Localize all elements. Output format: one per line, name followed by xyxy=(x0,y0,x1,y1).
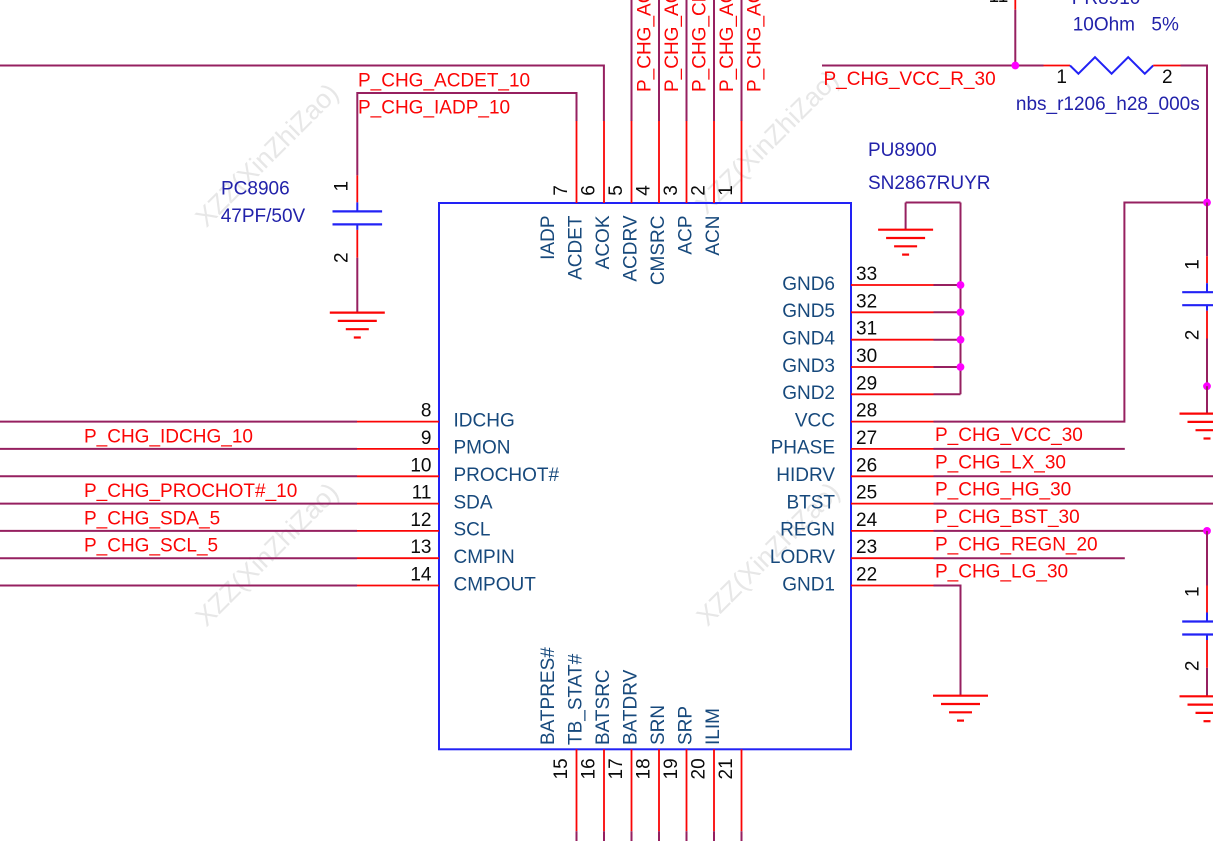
pin 10 PROCHOT# xyxy=(357,455,560,486)
wire GND row pin 33 xyxy=(934,284,961,286)
capacitor C right bottom xyxy=(1182,586,1213,668)
wire net P_CHG_ACOK_10 xyxy=(631,0,633,121)
svg-text:11: 11 xyxy=(989,0,1009,7)
pin 23 LODRV xyxy=(770,537,934,568)
wire net P_CHG_ACP_30 xyxy=(713,0,715,121)
pin 16 TB_STAT# xyxy=(565,653,604,831)
svg-text:16: 16 xyxy=(579,758,600,779)
svg-text:7: 7 xyxy=(551,185,572,196)
svg-text:P_CHG_ACDET_10: P_CHG_ACDET_10 xyxy=(358,70,530,91)
wire net at pin 8 xyxy=(0,421,357,423)
wire GND row pin 29 xyxy=(934,393,961,395)
svg-text:ACP: ACP xyxy=(675,216,696,255)
junction node right cap bottom xyxy=(1203,382,1211,390)
svg-text:P_CHG_CMSRC_30: P_CHG_CMSRC_30 xyxy=(690,0,711,92)
svg-text:LODRV: LODRV xyxy=(770,547,835,568)
wire net at pin 13 xyxy=(0,557,357,559)
svg-text:IADP: IADP xyxy=(538,216,559,260)
svg-text:29: 29 xyxy=(856,373,877,394)
svg-text:REGN: REGN xyxy=(780,520,835,541)
svg-text:BATPRES#: BATPRES# xyxy=(538,647,559,745)
pin 14 CMPOUT xyxy=(357,565,536,596)
svg-text:P_CHG_LX_30: P_CHG_LX_30 xyxy=(935,452,1066,473)
svg-text:15: 15 xyxy=(551,758,572,779)
svg-text:P_CHG_PROCHOT#_10: P_CHG_PROCHOT#_10 xyxy=(84,481,297,502)
svg-text:21: 21 xyxy=(716,758,737,779)
ground below PC8906 xyxy=(330,313,385,338)
svg-text:1: 1 xyxy=(1183,259,1204,270)
svg-text:PU8900: PU8900 xyxy=(868,140,937,161)
svg-text:GND4: GND4 xyxy=(782,329,835,350)
wire net at pin 9 xyxy=(0,448,357,450)
svg-text:10: 10 xyxy=(410,455,431,476)
svg-text:CMPIN: CMPIN xyxy=(454,547,515,568)
pin 20 SRP xyxy=(675,706,714,831)
svg-text:22: 22 xyxy=(856,565,877,586)
wire net P_CHG_REGN_20 xyxy=(934,530,1208,532)
pin 8 IDCHG xyxy=(357,401,515,432)
wire riser above junction xyxy=(1014,10,1016,66)
pin 6 ACDET xyxy=(565,121,604,280)
svg-text:IDCHG: IDCHG xyxy=(454,410,515,431)
svg-text:P_CHG_SDA_5: P_CHG_SDA_5 xyxy=(84,508,220,529)
pin 17 BATSRC xyxy=(593,669,632,831)
svg-text:SN2867RUYR: SN2867RUYR xyxy=(868,173,991,194)
svg-text:P_CHG_LG_30: P_CHG_LG_30 xyxy=(935,562,1068,583)
svg-text:ACDET: ACDET xyxy=(565,215,586,280)
pin 3 CMSRC xyxy=(648,121,687,285)
svg-text:nbs_r1206_h28_000s: nbs_r1206_h28_000s xyxy=(1016,94,1200,115)
wire below pin 17 xyxy=(631,831,633,841)
pin 28 VCC xyxy=(795,401,934,432)
svg-text:17: 17 xyxy=(606,758,627,779)
capacitor C PC8906 47PF/50V xyxy=(333,175,383,257)
svg-text:33: 33 xyxy=(856,264,877,285)
svg-text:SCL: SCL xyxy=(454,520,491,541)
svg-text:10Ohm: 10Ohm xyxy=(1073,14,1135,35)
pin 21 ILIM xyxy=(703,708,742,831)
wire below pin 20 xyxy=(713,831,715,841)
wire resistor pin2 to right column xyxy=(1181,66,1208,203)
pin 19 SRN xyxy=(648,705,687,831)
wire junction to ground xyxy=(1206,386,1208,413)
svg-text:12: 12 xyxy=(410,510,431,531)
wire net at pin 10 xyxy=(0,475,357,477)
pin 31 GND4 xyxy=(782,319,933,350)
svg-text:30: 30 xyxy=(856,346,877,367)
pin 30 GND3 xyxy=(782,346,933,377)
pin 11 SDA xyxy=(357,483,493,514)
svg-text:P_CHG_REGN_20: P_CHG_REGN_20 xyxy=(935,534,1098,555)
wire net at pin 14 xyxy=(0,585,357,587)
svg-text:24: 24 xyxy=(856,510,878,531)
junction pin 31 GND bus xyxy=(957,336,965,344)
wire GND column top link xyxy=(906,202,961,204)
wire GND row pin 30 xyxy=(934,366,961,368)
svg-text:BATSRC: BATSRC xyxy=(593,669,614,745)
svg-text:P_CHG_BST_30: P_CHG_BST_30 xyxy=(935,507,1080,528)
pin 13 CMPIN xyxy=(357,537,515,568)
svg-text:1: 1 xyxy=(1183,586,1204,597)
svg-text:BTST: BTST xyxy=(786,492,835,513)
pin stub from component above xyxy=(1014,0,1016,10)
pin 33 GND6 xyxy=(782,264,933,295)
pin 24 REGN xyxy=(780,510,933,541)
svg-text:25: 25 xyxy=(856,483,877,504)
svg-text:P_CHG_HG_30: P_CHG_HG_30 xyxy=(935,480,1071,501)
svg-text:18: 18 xyxy=(634,758,655,779)
svg-text:P_CHG_ACN_30: P_CHG_ACN_30 xyxy=(745,0,766,92)
svg-text:31: 31 xyxy=(856,319,877,340)
pin 25 BTST xyxy=(786,483,933,514)
pin 26 HIDRV xyxy=(776,455,933,486)
svg-text:PROCHOT#: PROCHOT# xyxy=(454,465,560,486)
wire below pin 21 xyxy=(741,831,743,841)
svg-text:P_CHG_VCC_30: P_CHG_VCC_30 xyxy=(935,425,1083,446)
junction pin 30 GND bus xyxy=(957,363,965,371)
pin 29 GND2 xyxy=(782,373,933,404)
svg-text:TB_STAT#: TB_STAT# xyxy=(565,653,586,745)
svg-text:6: 6 xyxy=(579,185,600,196)
wire below pin 15 xyxy=(576,831,578,841)
wire net P_CHG_BST_30 xyxy=(934,503,1213,505)
svg-text:GND1: GND1 xyxy=(782,574,835,595)
svg-text:P_CHG_IADP_10: P_CHG_IADP_10 xyxy=(358,97,510,118)
svg-text:26: 26 xyxy=(856,455,877,476)
svg-text:5: 5 xyxy=(606,185,627,196)
svg-text:1: 1 xyxy=(331,181,352,192)
wire net P_CHG_LX_30 xyxy=(934,448,1125,450)
svg-text:20: 20 xyxy=(689,758,710,779)
pin 15 BATPRES# xyxy=(538,647,577,831)
pin 1 ACN xyxy=(703,121,742,256)
svg-text:P_CHG_SCL_5: P_CHG_SCL_5 xyxy=(84,536,218,557)
svg-text:3: 3 xyxy=(661,185,682,196)
IC PU8900 SN2867RUYR body xyxy=(439,203,851,749)
svg-text:CMSRC: CMSRC xyxy=(648,216,669,286)
pin 5 ACOK xyxy=(593,121,632,269)
svg-text:32: 32 xyxy=(856,291,877,312)
pin 22 GND1 xyxy=(782,565,933,596)
svg-text:ACN: ACN xyxy=(703,216,724,256)
svg-text:27: 27 xyxy=(856,428,877,449)
junction P_CHG_VCC_R_30 xyxy=(1011,62,1019,70)
svg-text:PHASE: PHASE xyxy=(771,438,835,459)
svg-text:P_CHG_ACDRV_30: P_CHG_ACDRV_30 xyxy=(662,0,683,92)
svg-text:P_CHG_IDCHG_10: P_CHG_IDCHG_10 xyxy=(84,426,253,447)
svg-text:1: 1 xyxy=(716,185,737,196)
capacitor C right top xyxy=(1182,256,1213,338)
svg-text:SRP: SRP xyxy=(675,706,696,745)
svg-text:28: 28 xyxy=(856,401,877,422)
svg-text:HIDRV: HIDRV xyxy=(776,465,835,486)
wire net P_CHG_VCC_R_30 xyxy=(822,65,1044,67)
svg-text:GND6: GND6 xyxy=(782,274,835,295)
svg-text:GND5: GND5 xyxy=(782,301,835,322)
svg-text:11: 11 xyxy=(412,483,432,504)
ground right top xyxy=(1180,414,1213,439)
wire GND row pin 32 xyxy=(934,311,961,313)
ground for PU8900 GND pins xyxy=(878,230,933,255)
wire net P_CHG_LG_30 xyxy=(934,557,1125,559)
wire net P_CHG_ACN_30 xyxy=(741,0,743,121)
junction pin 32 GND bus xyxy=(957,308,965,316)
wire GND column riser to ground xyxy=(905,203,907,230)
wire net P_CHG_CMSRC_30 xyxy=(686,0,688,121)
svg-text:47PF/50V: 47PF/50V xyxy=(221,206,306,227)
junction pin 33 GND bus xyxy=(957,281,965,289)
pin 27 PHASE xyxy=(771,428,934,459)
pin 12 SCL xyxy=(357,510,490,541)
svg-text:PR8910: PR8910 xyxy=(1072,0,1141,9)
pin 2 ACP xyxy=(675,121,714,255)
svg-text:GND3: GND3 xyxy=(782,356,835,377)
resistor R PR8910 10Ohm xyxy=(1044,57,1181,73)
svg-text:9: 9 xyxy=(421,428,432,449)
wire net P_CHG_HG_30 xyxy=(934,475,1213,477)
pin 32 GND5 xyxy=(782,291,933,322)
svg-text:5%: 5% xyxy=(1151,14,1179,35)
pin 7 IADP xyxy=(538,121,577,260)
svg-text:4: 4 xyxy=(634,185,655,196)
svg-text:1: 1 xyxy=(1056,67,1067,88)
wire GND bus column xyxy=(960,203,962,395)
wire below pin 19 xyxy=(686,831,688,841)
svg-text:SDA: SDA xyxy=(454,492,493,513)
wire net P_CHG_VCC_30 xyxy=(934,203,1208,422)
svg-text:SRN: SRN xyxy=(648,705,669,745)
svg-text:P_CHG_VCC_R_30: P_CHG_VCC_R_30 xyxy=(824,69,996,90)
wire net P_CHG_ACDRV_30 xyxy=(658,0,660,121)
svg-text:P_CHG_ACOK_10: P_CHG_ACOK_10 xyxy=(635,0,656,92)
svg-text:19: 19 xyxy=(661,758,682,779)
svg-text:2: 2 xyxy=(1162,67,1173,88)
svg-text:ACDRV: ACDRV xyxy=(620,215,641,281)
wire right bottom cap to ground xyxy=(1206,668,1208,697)
svg-text:2: 2 xyxy=(331,252,352,263)
wire GND row pin 31 xyxy=(934,339,961,341)
svg-text:23: 23 xyxy=(856,537,877,558)
svg-text:ILIM: ILIM xyxy=(703,708,724,745)
pin 18 BATDRV xyxy=(620,669,659,831)
wire PC8906 pin2 to ground xyxy=(356,258,358,313)
svg-text:13: 13 xyxy=(410,537,431,558)
ground right bottom xyxy=(1180,696,1213,721)
wire below pin 18 xyxy=(658,831,660,841)
pin 4 ACDRV xyxy=(620,121,659,282)
svg-text:VCC: VCC xyxy=(795,410,835,431)
svg-text:BATDRV: BATDRV xyxy=(620,669,641,745)
svg-text:14: 14 xyxy=(410,565,432,586)
wire net at pin 12 xyxy=(0,530,357,532)
svg-text:2: 2 xyxy=(1183,330,1204,341)
wire to right cap pin1 xyxy=(1206,203,1208,257)
svg-text:PC8906: PC8906 xyxy=(221,179,290,200)
svg-text:GND2: GND2 xyxy=(782,383,835,404)
wire GND1 to ground xyxy=(934,586,961,696)
svg-text:P_CHG_ACP_30: P_CHG_ACP_30 xyxy=(717,0,738,92)
svg-text:8: 8 xyxy=(421,401,432,422)
wire net P_CHG_IADP_10 xyxy=(357,93,576,175)
junction node right cap top xyxy=(1203,199,1211,207)
svg-text:PMON: PMON xyxy=(454,438,511,459)
svg-text:2: 2 xyxy=(1183,661,1204,672)
wire net at pin 11 xyxy=(0,503,357,505)
junction node REGN cap xyxy=(1203,527,1211,535)
wire below pin 16 xyxy=(603,831,605,841)
wire right cap pin2 down xyxy=(1206,339,1208,387)
svg-text:2: 2 xyxy=(689,185,710,196)
wire net P_CHG_ACDET_10 xyxy=(0,66,604,122)
pin 9 PMON xyxy=(357,428,511,459)
wire REGN junction to cap pin1 xyxy=(1206,531,1208,586)
svg-text:ACOK: ACOK xyxy=(593,215,614,269)
ground below GND1 xyxy=(933,696,988,721)
svg-text:CMPOUT: CMPOUT xyxy=(454,574,537,595)
